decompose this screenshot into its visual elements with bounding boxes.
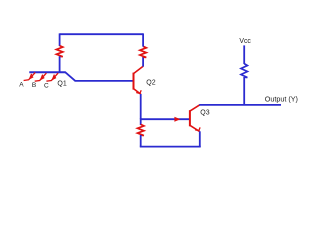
wire top rail xyxy=(60,33,144,35)
resistor R2 xyxy=(140,46,146,57)
svg-text:Vcc: Vcc xyxy=(239,38,251,45)
resistor R1 xyxy=(56,46,62,57)
svg-text:C: C xyxy=(44,82,49,89)
svg-text:Q2: Q2 xyxy=(146,80,155,87)
wire R1 bottom lead xyxy=(59,56,61,72)
transistor Q3 emitter xyxy=(190,125,200,131)
svg-text:A: A xyxy=(19,81,24,88)
wire R3 bottom lead xyxy=(140,135,142,147)
wire Q1 collector diagonal xyxy=(65,72,75,81)
resistor R4 Vcc pull-up xyxy=(241,64,247,78)
wire Q3 emitter lead xyxy=(199,131,201,147)
wire Vcc lead bottom xyxy=(243,77,245,106)
wire bottom rail xyxy=(140,146,201,148)
svg-text:Q1: Q1 xyxy=(57,80,66,87)
transistor Q3 base bar xyxy=(189,110,191,126)
resistor R3 xyxy=(138,124,144,135)
transistor Q2 base bar xyxy=(133,73,135,90)
wire R2 top lead xyxy=(142,33,144,46)
wire node to R3 xyxy=(140,118,142,125)
transistor Q2 collector xyxy=(134,66,144,73)
transistor Q3 collector xyxy=(190,105,200,111)
wire Q2 collector lead xyxy=(142,57,144,67)
transistor Q1 emitter C xyxy=(46,73,58,81)
wire Q2 emitter lead xyxy=(140,94,142,119)
transistor Q1 emitter A xyxy=(24,72,36,80)
arrow on Q3 base wire xyxy=(174,117,180,122)
wire R1 top lead xyxy=(59,33,61,46)
transistor Q1 emitter B xyxy=(35,73,47,81)
wire output line xyxy=(199,104,281,106)
svg-text:Output (Y): Output (Y) xyxy=(265,94,298,103)
wire Vcc lead top xyxy=(243,45,245,64)
transistor Q1 base bar xyxy=(29,71,65,73)
svg-text:B: B xyxy=(32,82,36,89)
wire Q1 collector to Q2 base xyxy=(75,80,134,82)
transistor Q2 emitter xyxy=(134,89,142,95)
wire Q3 base xyxy=(141,118,190,120)
svg-text:Q3: Q3 xyxy=(200,110,209,117)
